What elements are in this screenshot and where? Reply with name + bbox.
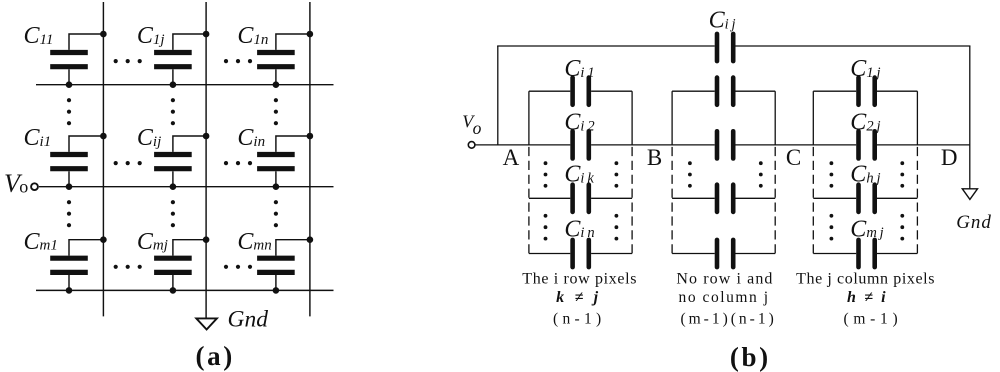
wire: group 1 right rail solid top (fig b) [631, 91, 633, 145]
vertical ellipsis (omitted rows), below row 1 col 2 (fig a) [171, 98, 175, 125]
wire: group 1 branch 4 right lead (fig b) [591, 253, 632, 255]
capacitor Cij (fig a) [154, 136, 206, 187]
junction dot: Cin top plate to column 3 [307, 133, 314, 140]
capacitor group 2 branch 3 capacitor (fig b) [717, 185, 733, 212]
svg-text:Cin: Cin [237, 125, 265, 151]
svg-text:(m-1): (m-1) [844, 310, 903, 327]
value label Cm1 [24, 229, 58, 255]
value label C11 [24, 23, 54, 49]
svg-text:Ch j: Ch j [850, 162, 880, 188]
caption (b) [730, 342, 771, 372]
node label Vo (fig b) [462, 112, 481, 138]
svg-text:h ≠ i: h ≠ i [847, 289, 888, 306]
annotation text under group 2 (fig b) [676, 271, 776, 328]
vertical ellipsis (omitted rows), below row 2 col 1 (fig a) [67, 200, 71, 227]
junction dot: C1j top plate to column 2 [203, 31, 210, 38]
junction dot: Cmn top plate to column 3 [307, 236, 314, 243]
wire: group 3 branch 1 right lead (fig b) [877, 90, 917, 92]
ground symbol (open arrow, fig b) [962, 189, 977, 200]
wire: top bypass line left segment (fig b) [497, 45, 715, 47]
annotation text under group 3 (fig b) [796, 271, 935, 328]
svg-text:(m-1)(n-1): (m-1)(n-1) [680, 310, 776, 327]
svg-text:Ci 1: Ci 1 [564, 56, 594, 82]
value label Cij [137, 125, 161, 151]
wire: group 2 branch 3 right lead (fig b) [736, 197, 776, 199]
capacitor Cin (fig a) [257, 136, 310, 187]
wire: group 2 right rail dashed (fig b) [774, 147, 776, 254]
capacitor group 2 branch 4 capacitor (fig b) [717, 240, 733, 267]
value label C1n [237, 23, 268, 49]
junction dot: Cin bottom plate to row 2 [273, 183, 280, 190]
wire: group 3 branch 3 right lead (fig b) [877, 197, 917, 199]
capacitor group 2 branch 1 capacitor (fig b) [717, 78, 733, 105]
junction dot: C11 bottom plate to row 1 [66, 81, 73, 88]
junction dot: C11 top plate to column 1 [100, 31, 107, 38]
junction dot: Cm1 top plate to column 1 [100, 236, 107, 243]
svg-text:C1 j: C1 j [850, 56, 880, 82]
wire: group 3 right rail dashed (fig b) [916, 147, 918, 254]
junction dot: Cij top plate to column 2 [203, 133, 210, 140]
wire: row line 3 (fig a) [36, 289, 334, 291]
value label Cmj [137, 229, 168, 255]
capacitor Ci1 (fig b) [573, 78, 589, 105]
capacitor Cik (fig b) [573, 185, 589, 212]
wire: main horizontal line segment 1 (fig b) [475, 144, 570, 146]
svg-text:Cij: Cij [137, 125, 161, 151]
ground symbol (fig a) [196, 318, 217, 329]
wire: main horizontal line segment 2 (fig b) [591, 144, 715, 146]
svg-text:C: C [786, 145, 801, 170]
capacitor C1n (fig a) [257, 34, 310, 85]
value label Cmn [237, 229, 271, 255]
svg-text:(n-1): (n-1) [553, 310, 606, 327]
vertical ellipsis (omitted branches), group 1 upper gap (fig b) [544, 161, 619, 187]
svg-text:C1j: C1j [137, 23, 165, 49]
wire: group 2 right rail solid top (fig b) [774, 91, 776, 145]
wire: group 3 branch 4 left lead (fig b) [813, 253, 856, 255]
svg-text:Ci n: Ci n [564, 216, 594, 242]
junction dot: Cmj top plate to column 2 [203, 236, 210, 243]
wire: main horizontal line segment 3 (fig b) [736, 144, 857, 146]
value label Cin (fig b) [564, 216, 594, 242]
svg-text:Ci 2: Ci 2 [564, 110, 594, 136]
wire: group 2 left rail solid top (fig b) [671, 91, 673, 145]
wire: group 2 branch 1 left lead (fig b) [672, 90, 715, 92]
svg-text:o: o [19, 176, 28, 196]
horizontal ellipsis (omitted columns), row 3 gap 2 (fig a) [224, 265, 252, 269]
svg-text:Cmn: Cmn [237, 229, 271, 255]
wire: group 3 left rail solid top (fig b) [812, 91, 814, 145]
value label Ci1 [24, 125, 52, 151]
wire: main horizontal line segment 4 (fig b) [877, 144, 970, 146]
horizontal ellipsis (omitted columns), row 2 gap 1 (fig a) [114, 161, 142, 165]
horizontal ellipsis (omitted columns), row 2 gap 2 (fig a) [224, 161, 252, 165]
wire: group 1 branch 3 right lead (fig b) [591, 197, 632, 199]
vertical ellipsis (omitted rows), below row 1 col 3 (fig a) [274, 98, 278, 125]
wire: row line 1 (fig a) [36, 84, 334, 86]
junction dot: Cmj bottom plate to row 3 [170, 287, 177, 294]
node label B (fig b) [647, 145, 662, 170]
horizontal ellipsis (omitted columns), row 1 gap 2 (fig a) [224, 59, 252, 63]
svg-text:Ci k: Ci k [564, 162, 594, 188]
value label Cmj (fig b) [850, 216, 883, 242]
capacitor Cmj (fig a) [154, 240, 206, 291]
vertical ellipsis (omitted branches), group 3 lower gap (fig b) [830, 214, 905, 241]
wire: group 2 branch 1 right lead (fig b) [736, 90, 776, 92]
junction dot: Ci1 bottom plate to row 2 [66, 183, 73, 190]
wire: group 2 branch 3 left lead (fig b) [672, 197, 715, 199]
wire: group 1 branch 4 left lead (fig b) [529, 253, 570, 255]
junction dot: Cmn bottom plate to row 3 [273, 287, 280, 294]
wire: group 2 branch 4 left lead (fig b) [672, 253, 715, 255]
wire: group 3 right rail solid top (fig b) [916, 91, 918, 145]
node label C (fig b) [786, 145, 801, 170]
svg-text:(a): (a) [196, 341, 235, 371]
ground label Gnd (fig a) [228, 307, 269, 333]
capacitor Cin (fig b) [573, 240, 589, 267]
svg-text:Cm1: Cm1 [24, 229, 58, 255]
node Vo terminal circle (fig b) [468, 142, 475, 149]
annotation text under group 1 (fig b) [522, 271, 637, 328]
svg-text:C1n: C1n [237, 23, 268, 49]
capacitor C2j (fig b) [859, 131, 875, 158]
node Vo terminal circle (fig a) [31, 183, 38, 190]
capacitor Cm1 (fig a) [50, 240, 103, 291]
horizontal ellipsis (omitted columns), row 3 gap 1 (fig a) [114, 265, 142, 269]
wire: group 1 left rail solid top (fig b) [528, 91, 530, 145]
value label Cij (fig b) [709, 8, 736, 34]
svg-text:The i row pixels: The i row pixels [522, 271, 637, 288]
vertical ellipsis (omitted rows), below row 2 col 2 (fig a) [171, 200, 175, 227]
svg-text:C11: C11 [24, 23, 54, 49]
value label C1j [137, 23, 165, 49]
wire: group 1 branch 1 left lead (fig b) [529, 90, 570, 92]
caption (a) [196, 341, 235, 371]
vertical ellipsis (omitted branches), group 3 upper gap (fig b) [830, 161, 905, 187]
wire: group 3 branch 4 right lead (fig b) [877, 253, 917, 255]
value label C2j (fig b) [850, 110, 880, 136]
capacitor Cmj (fig b) [859, 240, 875, 267]
vertical ellipsis (omitted branches), group 2 upper gap (fig b) [688, 161, 763, 187]
wire: left vertical riser (fig b) [497, 46, 499, 145]
horizontal ellipsis (omitted columns), row 1 gap 1 (fig a) [114, 59, 142, 63]
wire: group 1 branch 3 left lead (fig b) [529, 197, 570, 199]
capacitor C11 (fig a) [50, 34, 103, 85]
svg-text:Cmj: Cmj [137, 229, 168, 255]
wire: group 1 branch 1 right lead (fig b) [591, 90, 632, 92]
svg-text:The j column pixels: The j column pixels [796, 271, 935, 288]
capacitor Ci1 (fig a) [50, 136, 103, 187]
capacitor group 2 branch 2 capacitor (fig b) [717, 131, 733, 158]
value label Cin [237, 125, 265, 151]
junction dot: C1n bottom plate to row 1 [273, 81, 280, 88]
capacitor Chj (fig b) [859, 185, 875, 212]
svg-text:(b): (b) [730, 342, 771, 372]
junction dot: Cij bottom plate to row 2 [170, 183, 177, 190]
value label Ci2 (fig b) [564, 110, 594, 136]
wire: group 2 branch 4 right lead (fig b) [736, 253, 776, 255]
svg-text:k ≠ j: k ≠ j [556, 289, 601, 306]
wire: group 3 branch 1 left lead (fig b) [813, 90, 856, 92]
wire: column line 2 (fig a) [205, 2, 207, 318]
value label Cik (fig b) [564, 162, 594, 188]
capacitor C1j (fig a) [154, 34, 206, 85]
wire: group 3 left rail dashed (fig b) [812, 147, 814, 254]
value label C1j (fig b) [850, 56, 880, 82]
svg-text:Ci j: Ci j [709, 8, 736, 34]
capacitor Ci2 (fig b) [573, 131, 589, 158]
capacitor Cij (series bypass, fig b) [717, 34, 733, 61]
svg-text:Gnd: Gnd [228, 307, 269, 333]
node label D (fig b) [941, 145, 958, 170]
wire: column line 3 (fig a) [309, 2, 311, 316]
svg-text:Ci1: Ci1 [24, 125, 52, 151]
svg-text:Gnd: Gnd [956, 212, 991, 233]
wire: group 1 left rail dashed (fig b) [528, 147, 530, 254]
svg-text:B: B [647, 145, 662, 170]
wire: row line 2 (fig a) [39, 186, 334, 188]
vertical ellipsis (omitted rows), below row 2 col 3 (fig a) [274, 200, 278, 227]
svg-text:o: o [473, 118, 482, 138]
junction dot: C1n top plate to column 3 [307, 31, 314, 38]
ground label Gnd (fig b) [956, 212, 991, 233]
junction dot: Ci1 top plate to column 1 [100, 133, 107, 140]
node label A (fig b) [503, 145, 520, 170]
value label Chj (fig b) [850, 162, 880, 188]
node label Vo (fig a) [4, 169, 28, 198]
value label Ci1 (fig b) [564, 56, 594, 82]
capacitor C1j (fig b) [859, 78, 875, 105]
svg-text:C2 j: C2 j [850, 110, 880, 136]
wire: top bypass line right segment (fig b) [736, 45, 971, 47]
svg-text:no column j: no column j [679, 289, 770, 306]
svg-text:No row i and: No row i and [676, 271, 773, 288]
junction dot: C1j bottom plate to row 1 [170, 81, 177, 88]
svg-text:A: A [503, 145, 520, 170]
wire: group 3 branch 3 left lead (fig b) [813, 197, 856, 199]
svg-text:Cm j: Cm j [850, 216, 883, 242]
wire: right vertical drop to ground (fig b) [969, 46, 971, 189]
vertical ellipsis (omitted rows), below row 1 col 1 (fig a) [67, 98, 71, 125]
svg-text:D: D [941, 145, 958, 170]
wire: group 1 right rail dashed (fig b) [631, 147, 633, 254]
capacitor Cmn (fig a) [257, 240, 310, 291]
wire: group 2 left rail dashed (fig b) [671, 147, 673, 254]
wire: column line 1 (fig a) [102, 2, 104, 316]
vertical ellipsis (omitted branches), group 1 lower gap (fig b) [544, 214, 619, 241]
junction dot: Cm1 bottom plate to row 3 [66, 287, 73, 294]
